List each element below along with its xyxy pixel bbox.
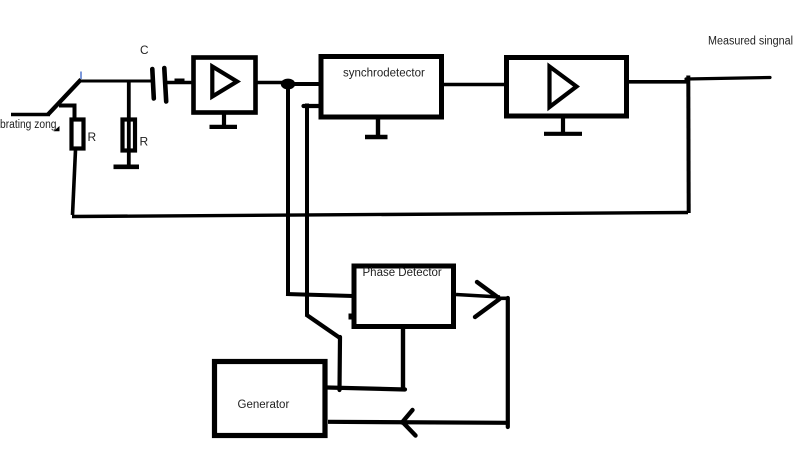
wire (feedback horizontal) bbox=[72, 213, 688, 217]
arrowhead (left) bbox=[402, 410, 416, 436]
wire (phase detector output) bbox=[456, 295, 500, 298]
wire (phase detector bottom stub) bbox=[401, 327, 405, 388]
svg-text:R: R bbox=[140, 135, 149, 149]
wire (input lead) bbox=[11, 113, 50, 117]
wire (arrow tip to corner) bbox=[498, 296, 509, 300]
svg-text:synchrodetector: synchrodetector bbox=[343, 68, 425, 80]
wire (node to synchrodetector) bbox=[293, 82, 320, 86]
wire (A2 output) bbox=[626, 80, 689, 84]
resistor R1 bbox=[72, 120, 84, 149]
ground (synchrodetector) bbox=[365, 117, 388, 137]
stub mark on phase detector left edge bbox=[349, 314, 352, 320]
svg-text:R: R bbox=[88, 130, 97, 144]
wire (right vertical from synchrodetector) bbox=[305, 104, 309, 317]
amplifier A1 triangle bbox=[212, 67, 237, 97]
svg-text:brating zong: brating zong bbox=[0, 119, 57, 131]
svg-text:Generator: Generator bbox=[238, 399, 290, 411]
wire (generator to phase link) bbox=[327, 388, 405, 390]
wire (stub to resistor R1) bbox=[59, 106, 75, 120]
Phase Detector box bbox=[354, 266, 454, 327]
amplifier A1 stand bbox=[210, 113, 238, 127]
wire (R1 lower leg) bbox=[73, 150, 76, 215]
ground (A2) bbox=[544, 116, 582, 134]
ground (R2) bbox=[114, 165, 140, 170]
wire (stub from synchrodetector) bbox=[304, 104, 322, 108]
wire (down to generator link) bbox=[337, 337, 342, 390]
node (junction dot) bbox=[281, 79, 295, 90]
resistor R2 bbox=[123, 120, 136, 151]
arrowhead (right) bbox=[475, 282, 500, 317]
wire (bottom feedback to generator) bbox=[328, 422, 509, 423]
wire (synchrodetector to A2) bbox=[441, 83, 506, 87]
svg-text:Measured singnal: Measured singnal bbox=[708, 36, 793, 48]
wire (right lower vertical) bbox=[506, 298, 510, 427]
Generator box bbox=[215, 362, 326, 436]
text cursor artifact bbox=[80, 72, 82, 80]
amplifier A2 box bbox=[507, 58, 627, 117]
svg-text:C: C bbox=[140, 43, 149, 57]
amplifier A1 box bbox=[194, 58, 256, 113]
cursor mark bbox=[54, 126, 60, 131]
wire (capacitor to amplifier A1) bbox=[167, 81, 193, 84]
wire (A1 to node) bbox=[257, 81, 285, 84]
capacitor C plate 1 bbox=[152, 69, 154, 99]
wire (node drop, left vertical) bbox=[286, 88, 290, 295]
wire (top rail to capacitor) bbox=[79, 80, 151, 83]
wire (probe diagonal) bbox=[48, 80, 81, 115]
svg-text:Phase Detector: Phase Detector bbox=[363, 267, 442, 279]
wire (diagonal jog) bbox=[306, 315, 340, 339]
capacitor C plate 2 bbox=[164, 68, 166, 102]
wire (feedback right vertical) bbox=[686, 76, 690, 214]
wire (overdraw dash) bbox=[175, 79, 185, 82]
wire (output lead) bbox=[686, 78, 770, 80]
wire (drop to resistor R2) bbox=[127, 81, 131, 165]
wire (into phase detector) bbox=[286, 294, 353, 296]
synchrodetector box bbox=[321, 57, 442, 118]
amplifier A2 triangle bbox=[550, 67, 577, 108]
